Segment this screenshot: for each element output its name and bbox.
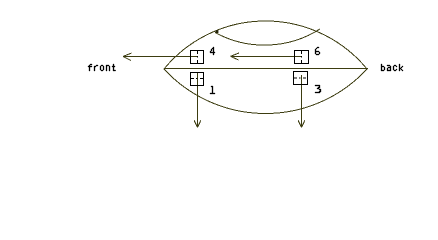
equator line xyxy=(164,68,368,70)
box 6 xyxy=(295,51,309,64)
box 1 down arrowhead xyxy=(194,120,201,127)
front arrow wire xyxy=(123,56,190,58)
mid arrowhead xyxy=(231,53,240,60)
box 3 down arrowhead xyxy=(298,120,305,127)
label 1 xyxy=(210,86,215,94)
label back xyxy=(381,64,403,71)
outer top arc xyxy=(164,21,367,69)
outer bottom arc xyxy=(164,69,367,114)
inner crease arc xyxy=(215,29,320,45)
junction dot xyxy=(216,30,219,33)
box 4 pointer wire xyxy=(190,56,198,58)
box 6 dashed line xyxy=(301,51,303,63)
box 3 dashed line xyxy=(294,77,306,79)
box 1 xyxy=(191,73,204,86)
box 4 xyxy=(191,51,204,64)
box 3 arrow wire xyxy=(301,75,303,127)
label 4 xyxy=(210,47,215,55)
mid arrow wire xyxy=(231,55,295,57)
label 6 xyxy=(315,47,320,55)
box 4 dashed line xyxy=(197,51,199,63)
box 1 arrow wire xyxy=(197,72,199,127)
box 6 pointer wire xyxy=(294,55,302,57)
box 3 xyxy=(294,72,308,85)
label 3 xyxy=(315,85,321,93)
label front xyxy=(88,64,116,71)
front arrowhead xyxy=(123,53,132,61)
box 1 dashed line xyxy=(191,78,203,80)
